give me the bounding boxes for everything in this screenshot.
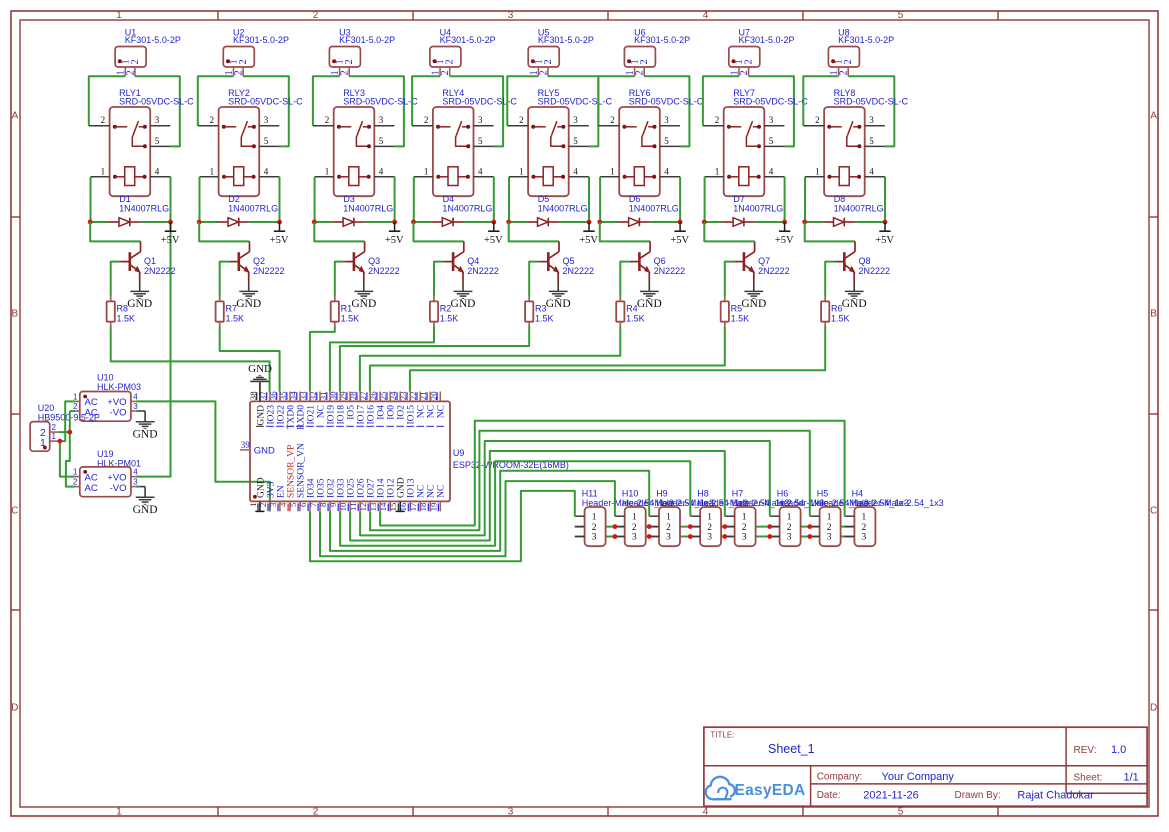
transistor Q5 [539,241,594,281]
svg-text:GND: GND [256,477,266,498]
resistor R8 [107,297,135,327]
svg-text:3: 3 [666,533,671,543]
svg-text:2021-11-26: 2021-11-26 [863,790,918,802]
svg-text:+5V: +5V [161,235,180,246]
power +5V [161,222,180,246]
svg-text:1: 1 [210,166,215,176]
svg-text:2: 2 [424,115,429,125]
wire Q8 base to R6 [825,262,835,297]
svg-text:3: 3 [155,115,160,125]
svg-text:2: 2 [344,59,355,64]
wire R7 to U9 [220,327,280,392]
wire D5 cathode net [559,221,589,223]
wire U20.2 AC net [58,411,75,487]
wire R2 to U9 [330,327,434,392]
wire U9.7 IO35 to H10.1 [320,481,615,556]
svg-text:R2: R2 [440,304,452,314]
svg-text:2: 2 [538,70,549,75]
svg-text:IO14: IO14 [377,478,387,498]
svg-text:1: 1 [787,512,792,522]
wire U9.10 IO25 to H7.1 [350,451,725,541]
wire header bus pin3 [575,536,855,538]
svg-text:1.5K: 1.5K [626,314,645,324]
diode D7 [722,194,783,226]
resistor R7 [216,297,244,327]
svg-text:R6: R6 [831,304,843,314]
svg-text:3V3: 3V3 [266,481,276,498]
svg-text:Q7: Q7 [758,256,770,266]
wire Q4 base to R2 [434,262,444,297]
wire Q2 base to R7 [220,262,230,297]
svg-text:1: 1 [73,468,78,477]
wire U7.2 to RLY7.5 [749,76,794,146]
svg-text:IO5: IO5 [347,405,357,420]
ground [637,282,662,311]
svg-text:NC: NC [437,485,447,498]
svg-text:3: 3 [268,502,278,507]
svg-text:7: 7 [308,502,318,507]
svg-text:EN: EN [276,485,286,498]
svg-text:Drawn By:: Drawn By: [955,790,1001,801]
svg-text:+5V: +5V [775,235,794,246]
power +5V [875,222,894,246]
svg-text:1: 1 [707,512,712,522]
wire D4 anode to Q4 collector [414,222,464,241]
wire D4 anode net [414,221,432,223]
power module U19 [73,449,141,497]
svg-text:1N4007RLG: 1N4007RLG [834,204,884,214]
svg-text:GND: GND [842,298,867,310]
junction D7 anode [702,220,707,225]
svg-text:1N4007RLG: 1N4007RLG [343,204,393,214]
wire U9.12 IO27 to H5.1 [370,431,810,531]
svg-text:4: 4 [155,166,160,176]
svg-text:U19: U19 [97,449,114,459]
svg-text:2: 2 [592,523,597,533]
svg-text:EasyEDA: EasyEDA [735,782,806,799]
wire D7 cathode net [755,221,785,223]
svg-text:4: 4 [478,166,483,176]
svg-text:2: 2 [843,59,854,64]
svg-text:1: 1 [424,166,429,176]
U9 pin 39 [240,440,275,457]
svg-text:KF301-5.0-2P: KF301-5.0-2P [838,35,894,45]
power +5V [579,222,598,246]
svg-text:R7: R7 [226,304,238,314]
svg-text:+VO: +VO [107,397,126,408]
svg-text:Sheet_1: Sheet_1 [768,742,815,756]
svg-text:NC: NC [417,485,427,498]
wire RLY1.1 to D1 anode [90,177,92,222]
svg-text:1.5K: 1.5K [831,314,850,324]
svg-text:D5: D5 [538,194,550,204]
svg-text:4: 4 [133,468,138,477]
svg-text:2: 2 [73,478,78,487]
svg-text:1N4007RLG: 1N4007RLG [119,204,169,214]
svg-text:1N4007RLG: 1N4007RLG [629,204,679,214]
svg-text:GND: GND [133,428,158,440]
wire +5V to U19.4 [136,222,171,477]
svg-text:1/1: 1/1 [1124,771,1139,783]
svg-text:15: 15 [388,502,398,511]
resistor R5 [721,297,749,327]
wire D6 anode net [600,221,618,223]
header H6 [770,488,869,546]
ground [351,282,376,311]
svg-text:2: 2 [742,523,747,533]
wire U1.2 to RLY1.5 [135,76,180,146]
svg-text:4: 4 [573,166,578,176]
ground at U10.3 [133,411,158,440]
transistor Q8 [835,241,890,281]
diode D1 [108,194,169,226]
wire D4 cathode net [464,221,494,223]
svg-text:4: 4 [664,166,669,176]
terminal U5 [528,27,594,76]
svg-text:R4: R4 [626,304,638,314]
svg-text:2: 2 [635,70,646,75]
svg-text:2N2222: 2N2222 [654,266,686,276]
wire D3 cathode net [365,221,395,223]
svg-text:NC: NC [316,405,326,418]
svg-text:2: 2 [744,59,755,64]
svg-text:GND: GND [741,298,766,310]
wire header bus pin2 [575,526,855,528]
svg-text:IO17: IO17 [357,405,367,425]
svg-text:14: 14 [378,502,388,511]
svg-text:4: 4 [703,807,709,818]
diode D5 [527,194,588,226]
svg-text:1: 1 [742,512,747,522]
svg-text:Q6: Q6 [654,256,666,266]
svg-text:Q8: Q8 [859,256,871,266]
terminal U8 [828,27,894,76]
svg-text:5: 5 [869,136,874,146]
wire Q1 base to R8 [111,262,121,297]
svg-text:1: 1 [715,166,720,176]
svg-text:H8: H8 [697,488,709,498]
svg-text:1: 1 [101,166,106,176]
svg-text:2: 2 [839,70,850,75]
header H9 [649,488,748,546]
svg-text:GND: GND [127,298,152,310]
svg-text:12: 12 [358,503,368,512]
wire U4.1 to RLY4.2 [412,76,440,126]
power +5V [775,222,794,246]
wire U20.1 AC net [58,401,75,476]
svg-text:Q5: Q5 [563,256,575,266]
svg-text:IO34: IO34 [306,478,316,498]
svg-text:39: 39 [241,440,251,450]
svg-text:2: 2 [440,70,451,75]
wire RLY6.1 to D6 anode [599,177,601,222]
svg-text:U20: U20 [38,403,55,413]
svg-text:GND: GND [133,504,158,516]
wire U8.1 to RLY8.2 [803,76,838,126]
svg-text:2: 2 [258,503,268,507]
svg-text:GND: GND [637,298,662,310]
junction D4 cathode [491,220,496,225]
resistor R6 [821,297,849,327]
svg-text:2: 2 [519,115,524,125]
wire RLY8.4 to D8 cathode / +5V [884,177,886,222]
wire U3.1 to RLY3.2 [313,76,340,126]
terminal U7 [729,27,795,76]
svg-text:2: 2 [862,523,867,533]
svg-text:IO22: IO22 [276,405,286,425]
ground [546,282,571,311]
svg-text:1: 1 [632,512,637,522]
wire D7 anode net [704,221,722,223]
svg-text:1: 1 [248,503,258,507]
wire U9.6 IO34 to H11.1 [310,491,575,561]
svg-text:1: 1 [40,437,46,449]
svg-text:1: 1 [73,392,78,401]
svg-text:2: 2 [739,70,750,75]
svg-text:3: 3 [862,533,867,543]
svg-text:3: 3 [707,533,712,543]
svg-text:AC: AC [85,397,98,408]
svg-text:IO16: IO16 [367,405,377,425]
svg-text:Rajat Chadokar: Rajat Chadokar [1017,790,1094,802]
wire D7 anode to Q7 collector [704,222,754,241]
svg-text:5: 5 [155,136,160,146]
terminal U4 [430,27,496,76]
svg-text:+5V: +5V [270,235,289,246]
junction D3 cathode [392,220,397,225]
junction D8 cathode [883,220,888,225]
wire RLY5.4 to D5 cathode / +5V [588,177,590,222]
svg-text:3: 3 [787,533,792,543]
wire RLY3.1 to D3 anode [314,177,316,222]
svg-text:2: 2 [787,523,792,533]
junction D2 anode [197,220,202,225]
wire U9.8 IO32 to H9.1 [330,471,649,551]
svg-text:H5: H5 [817,488,829,498]
svg-text:2: 2 [543,59,554,64]
svg-text:SRD-05VDC-SL-C: SRD-05VDC-SL-C [733,96,808,106]
svg-text:1.5K: 1.5K [226,314,245,324]
svg-text:2: 2 [52,423,57,432]
svg-text:1: 1 [827,512,832,522]
ground [451,282,476,311]
wire RLY7.4 to D7 cathode / +5V [784,177,786,222]
svg-text:C: C [11,506,18,517]
svg-text:D: D [11,703,18,714]
wire RLY6.4 to D6 cathode / +5V [679,177,681,222]
wire RLY2.4 to D2 cathode / +5V [279,177,281,222]
svg-text:2: 2 [632,523,637,533]
svg-text:KF301-5.0-2P: KF301-5.0-2P [634,35,690,45]
transistor Q7 [734,241,789,281]
svg-text:+5V: +5V [670,235,689,246]
svg-text:8: 8 [318,502,328,507]
wire U7.1 to RLY7.2 [703,76,739,126]
svg-text:U10: U10 [97,373,114,383]
wire RLY8.1 to D8 anode [804,177,806,222]
ESP32 module U9 [250,401,569,501]
svg-text:KF301-5.0-2P: KF301-5.0-2P [538,35,594,45]
wire D8 cathode net [855,221,885,223]
svg-text:2: 2 [325,115,330,125]
svg-text:2: 2 [639,59,650,64]
svg-text:SRD-05VDC-SL-C: SRD-05VDC-SL-C [442,96,517,106]
svg-text:D3: D3 [343,194,355,204]
svg-text:D6: D6 [629,194,641,204]
svg-text:4: 4 [379,166,384,176]
svg-text:TXD0: TXD0 [286,405,296,430]
svg-text:Q3: Q3 [368,256,380,266]
wire U3.2 to RLY3.5 [349,76,404,146]
svg-text:IO35: IO35 [316,478,326,498]
svg-text:Q1: Q1 [144,256,156,266]
svg-text:Q2: Q2 [253,256,265,266]
svg-text:R5: R5 [731,304,743,314]
svg-text:IO33: IO33 [337,478,347,498]
svg-text:10: 10 [338,502,348,511]
wire U5.2 to RLY5.5 [548,76,598,146]
header H5 [810,488,909,546]
svg-text:IO23: IO23 [266,405,276,425]
wire U8.2 to RLY8.5 [848,76,894,146]
wire U9.9 IO33 to H8.1 [340,461,690,546]
header H7 [725,488,824,546]
ground [127,282,152,311]
svg-text:H11: H11 [582,488,598,498]
svg-text:1: 1 [116,10,122,21]
resistor R4 [616,297,644,327]
diode D8 [823,194,884,226]
svg-text:2: 2 [125,70,136,75]
wire D3 anode to Q3 collector [314,222,364,241]
wire R8 to U9 [111,327,270,392]
svg-text:2: 2 [101,115,106,125]
wire R3 to U9 [340,327,529,392]
svg-text:4: 4 [133,392,138,401]
svg-text:4: 4 [769,166,774,176]
svg-text:A: A [11,111,18,122]
wire U2.1 to RLY2.2 [198,76,234,126]
svg-text:R3: R3 [535,304,547,314]
junction D6 anode [597,220,602,225]
wire RLY5.1 to D5 anode [508,177,510,222]
svg-text:16: 16 [398,502,408,511]
svg-text:2: 2 [313,807,319,818]
svg-text:3: 3 [508,10,514,21]
wire RLY2.1 to D2 anode [199,177,201,222]
resistor R2 [430,297,458,327]
wire R6 to U9 [410,327,825,392]
svg-text:2: 2 [610,115,615,125]
junction D7 cathode [782,220,787,225]
svg-text:GND: GND [254,446,275,457]
svg-text:Q4: Q4 [467,256,479,266]
svg-text:1.5K: 1.5K [341,314,360,324]
svg-text:5: 5 [898,10,904,21]
svg-text:NC: NC [417,405,427,418]
resistor R1 [331,297,359,327]
relay RLY3 [313,88,418,196]
U9 bottom pins [248,443,447,511]
ground [842,282,867,311]
wire RLY4.4 to D4 cathode / +5V [493,177,495,222]
svg-text:SRD-05VDC-SL-C: SRD-05VDC-SL-C [119,96,194,106]
transistor Q1 [120,241,175,281]
svg-text:2: 2 [827,523,832,533]
wire RLY3.4 to D3 cathode / +5V [394,177,396,222]
svg-text:GND: GND [248,363,272,375]
svg-text:H7: H7 [732,488,744,498]
title block [704,727,1147,806]
header H8 [690,488,789,546]
svg-text:D2: D2 [228,194,240,204]
svg-text:2: 2 [313,10,319,21]
svg-text:IO26: IO26 [357,478,367,498]
power module U10 [73,373,141,422]
svg-text:GND: GND [397,477,407,498]
svg-text:2: 2 [73,402,78,411]
svg-text:1: 1 [116,807,122,818]
svg-text:5: 5 [664,136,669,146]
wire D6 cathode net [650,221,680,223]
power +5V [670,222,689,246]
svg-text:2: 2 [815,115,820,125]
svg-text:1: 1 [325,166,330,176]
svg-text:+5V: +5V [579,235,598,246]
wire U2.2 to RLY2.5 [243,76,289,146]
junction header bus [647,524,652,539]
svg-text:IO32: IO32 [326,478,336,498]
svg-text:SRD-05VDC-SL-C: SRD-05VDC-SL-C [228,96,303,106]
terminal U6 [624,27,690,76]
junction header bus [722,524,727,539]
svg-text:Company:: Company: [817,772,863,783]
junction header bus [807,524,812,539]
svg-text:5: 5 [379,136,384,146]
svg-text:2: 2 [210,115,215,125]
wire R4 to U9 [360,327,620,392]
transistor Q6 [630,241,685,281]
svg-text:1: 1 [519,166,524,176]
svg-text:13: 13 [368,502,378,511]
junction D5 cathode [587,220,592,225]
svg-text:GND: GND [451,298,476,310]
svg-text:D: D [1150,703,1157,714]
svg-text:5: 5 [898,807,904,818]
svg-text:5: 5 [573,136,578,146]
svg-text:TITLE:: TITLE: [710,731,734,740]
header H10 [615,488,714,546]
svg-text:1N4007RLG: 1N4007RLG [442,204,492,214]
svg-text:IO2: IO2 [397,405,407,420]
svg-text:H10: H10 [622,488,639,498]
svg-text:17: 17 [408,502,418,511]
svg-text:+5V: +5V [385,235,404,246]
relay RLY6 [598,88,703,196]
junction D2 cathode [277,220,282,225]
svg-text:2N2222: 2N2222 [253,266,285,276]
svg-text:IO21: IO21 [306,405,316,425]
wire D2 anode to Q2 collector [199,222,249,241]
svg-text:2: 2 [666,523,671,533]
wire D1 anode to Q1 collector [90,222,140,241]
power +5V [385,222,404,246]
junction header bus [767,524,772,539]
svg-text:H6: H6 [777,488,789,498]
svg-text:KF301-5.0-2P: KF301-5.0-2P [440,35,496,45]
svg-text:1.5K: 1.5K [535,314,554,324]
ground at U19.3 [133,487,158,516]
